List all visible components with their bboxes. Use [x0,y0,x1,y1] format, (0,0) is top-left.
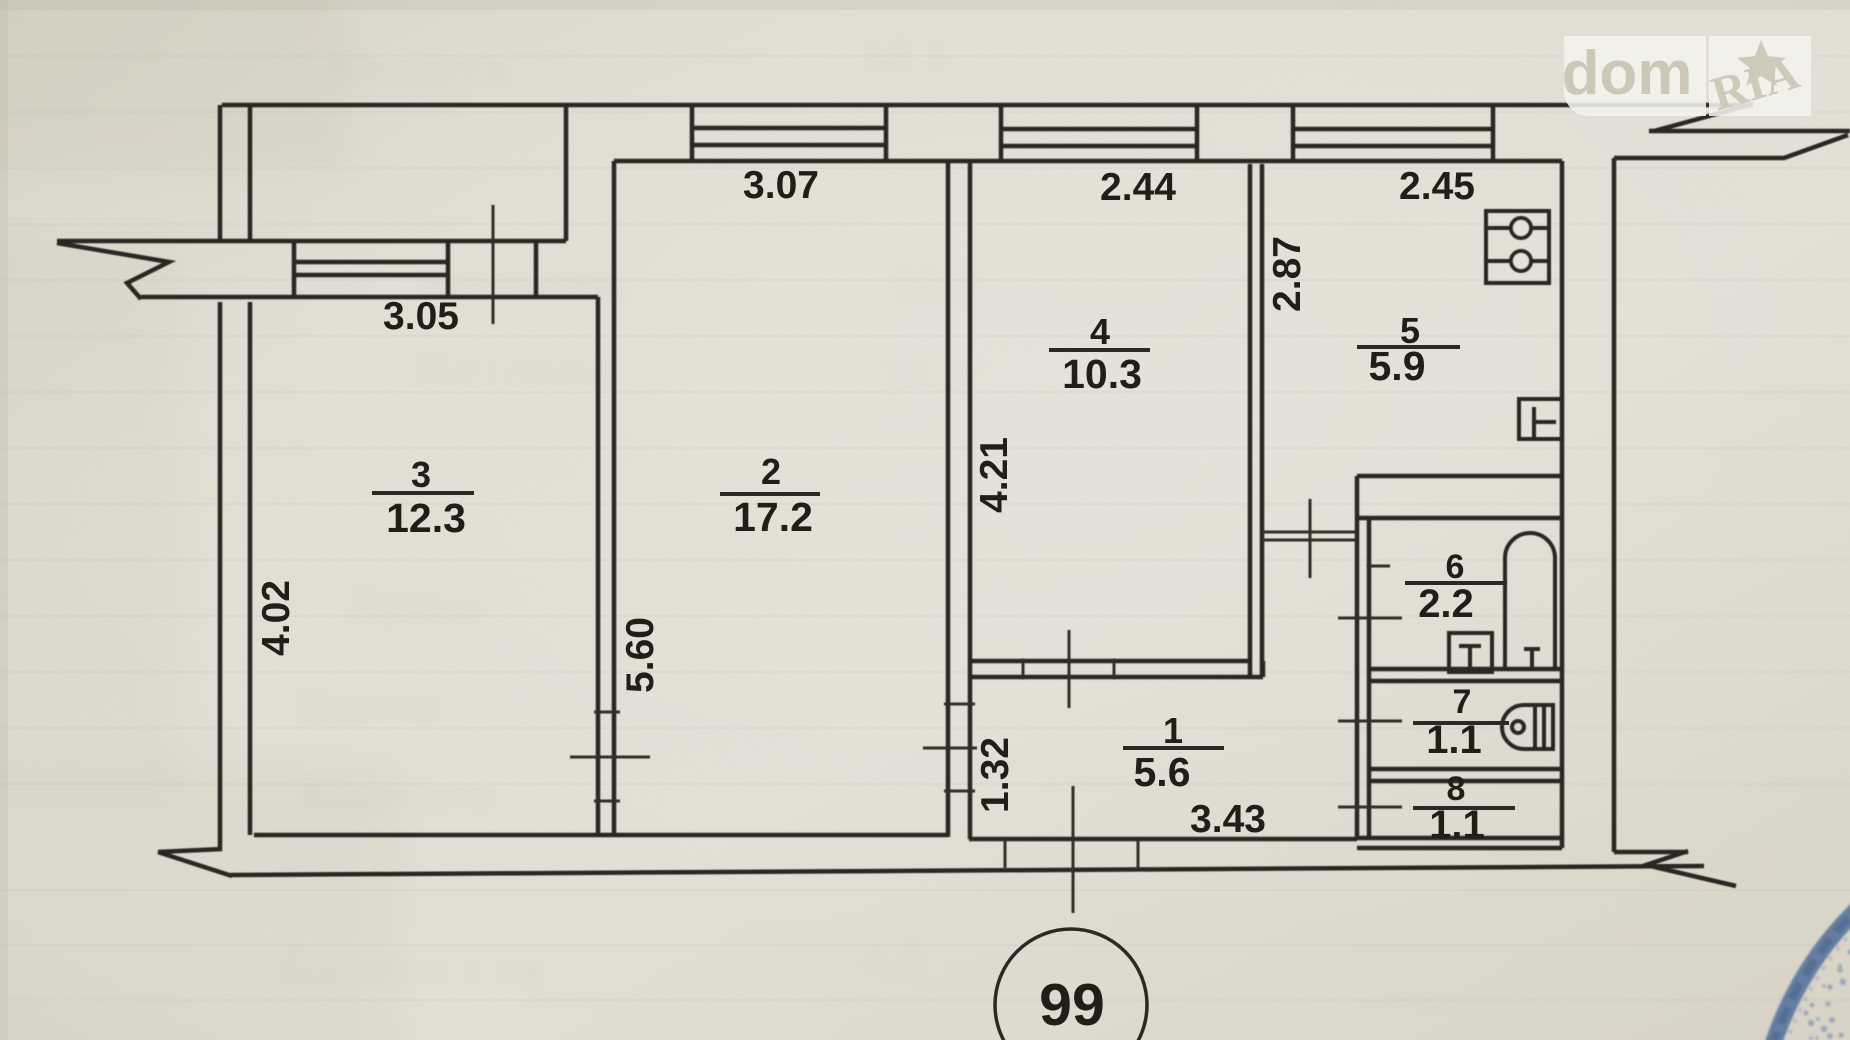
washbasin in room 6 [1449,633,1492,672]
dimension tick 1.32 [923,747,977,750]
window W4 glass line 1 [1001,127,1197,132]
svg-text:3.43: 3.43 [1190,798,1266,841]
room 2 label line [720,492,820,496]
svg-text:12.3: 12.3 [386,495,466,541]
window W4 right jamb [1195,105,1200,161]
kitchen threshold line 2 [1262,539,1357,542]
bottom-left beak top [158,849,222,852]
window W3 left jamb [292,241,297,297]
right outer band bottom [1614,135,1848,158]
svg-text:1.1: 1.1 [1426,718,1482,762]
wall rooms 7/8 bottom line [1369,779,1562,784]
door jamb tick room 4 right [1113,659,1116,679]
toilet bowl in room 7 [1502,705,1553,749]
wall: top outer line of building [222,103,1753,108]
break right-top horizontal [1649,129,1850,134]
svg-text:5.9: 5.9 [1369,343,1426,389]
kitchen faucet T bar [1532,407,1536,437]
room 4 bottom wall bottom line [970,675,1263,680]
door jamb tick rooms 3/2 upper [594,711,620,714]
dimension tick room 6 door [1338,617,1402,620]
jamb tick hall-room2 door upper [944,703,975,706]
svg-text:5.60: 5.60 [619,617,662,693]
partition rooms 4/5 right line [1260,164,1265,677]
room 1 label line [1123,746,1224,750]
svg-text:4,2: 4,2 [860,933,924,985]
window W2 glass line 2 [692,143,886,148]
kitchen sink niche [1519,399,1562,439]
window W5 glass line 2 [1293,144,1493,149]
svg-text:10.3: 10.3 [1062,351,1142,397]
wall: top inner ceiling line [614,159,1562,164]
dimension tick room 8 door [1338,806,1402,809]
svg-text:4: 4 [1090,311,1110,352]
break bottom-right zigzag [1646,851,1736,886]
window W5 left jamb [1291,105,1296,161]
svg-text:6: 6 [1446,548,1465,586]
stove in kitchen [1486,211,1549,283]
kitchen bottom wall left cap [1355,476,1360,518]
partition rooms 3/2 right line [612,161,617,836]
door jamb tick room 4 left [1022,659,1025,679]
break arrow left [57,243,169,299]
svg-text:10,0: 10,0 [880,348,970,400]
left edge shading [0,0,8,1040]
balcony left wall inner line [248,105,253,239]
corner shading top-left [0,0,350,170]
kitchen threshold line 1 [1262,531,1357,534]
logo dom RIA white box right [1709,36,1811,116]
outer band bottom line (room 3 wall) [141,295,598,300]
window W2 right jamb [884,105,889,161]
window W4 glass line 2 [1001,144,1197,149]
svg-text:Кімната: Кімната [330,43,507,95]
stamp blue arc bottom-right [1756,813,1850,1040]
dimension tick to apartment number [1072,786,1075,913]
band mid jamb [534,242,539,295]
bottom wall top line rooms 3 and 2 [254,833,948,838]
washbasin faucet T stem [1468,646,1472,670]
dimension cross kitchen door [1309,499,1312,578]
partition rooms 3/2 left line [596,297,601,836]
window W2 left jamb [690,105,695,161]
logo star [1737,40,1786,86]
room 7 label line leader to toilet [1413,721,1509,725]
window W3 glass line 2 [294,273,448,278]
bath block left wall outer line [1355,518,1360,837]
room 4 label line [1049,348,1150,352]
bath wall jamb tick room 6 top [1367,565,1390,568]
window W3 right jamb [446,241,451,297]
shading mid-left margin [0,240,180,800]
svg-text:99: 99 [1039,972,1105,1038]
room 4 bottom wall right cap [1261,661,1266,677]
entry door jamb tick right [1137,839,1140,868]
svg-text:12,0: 12,0 [890,258,980,310]
partition rooms 4/5 left line [1248,164,1253,677]
svg-text:dom: dom [1562,39,1693,108]
bottom-right outer corner line [1614,850,1688,855]
svg-text:3.07: 3.07 [743,164,819,207]
room 6 label line [1405,581,1507,585]
svg-text:2.45: 2.45 [1399,165,1475,208]
break right-top diagonal [1654,104,1753,131]
balcony left wall outer line [218,105,223,239]
toilet tank line 1 [1533,705,1537,749]
kitchen bottom wall bottom line [1357,516,1562,521]
room 5 label line [1357,345,1460,349]
svg-text:Житлова: Житлова [409,343,612,395]
svg-text:1.32: 1.32 [974,737,1017,813]
toilet tank line 2 [1542,705,1546,749]
bottom wall outer line [230,866,1704,875]
partition rooms 2/4 left line [946,161,951,837]
svg-text:5.6: 5.6 [1134,749,1191,795]
bathtub faucet T bar [1524,647,1540,651]
room 4 bottom wall top line [970,659,1251,664]
dimension tick room 7 door [1338,720,1402,723]
jamb tick hall-room2 door lower [944,790,975,793]
dimension cross room 4 door [1068,630,1071,708]
top edge shading [0,0,1850,10]
stove burner 2 [1511,251,1531,271]
wall rooms 7/8 top line [1369,767,1562,772]
svg-text:7: 7 [1453,683,1472,721]
dimension tick room 2 right [570,756,650,759]
svg-text:Кухня: Кухня [350,578,484,630]
washbasin faucet T bar [1459,644,1481,648]
svg-text:17.2: 17.2 [733,494,813,540]
right wall outer line [1612,158,1617,852]
svg-text:4.02: 4.02 [255,580,298,656]
bath block bottom wall top line [1357,836,1562,841]
room 3 left wall outer [218,302,223,851]
bathtub faucet T stem [1530,649,1534,668]
svg-text:12,1: 12,1 [860,28,950,80]
bath block left wall inner line [1367,518,1372,837]
stamp inner speckles [1804,950,1850,1040]
stove shelf line 1 [1486,226,1549,230]
bathtub in room 6 [1505,533,1555,669]
room 3 label line [372,491,474,495]
partition rooms 2/4 right line [968,161,973,839]
svg-text:1.1: 1.1 [1429,803,1485,847]
stove shelf line 2 [1486,259,1549,263]
svg-text:2.44: 2.44 [1100,166,1176,209]
svg-text:2.87: 2.87 [1266,236,1309,312]
corner shading bottom-left [0,760,400,1040]
balcony right wall [564,105,569,241]
kitchen faucet T stem [1534,420,1556,424]
balcony floor line / outer band top [57,239,566,244]
room 3 left wall inner [248,302,253,835]
door jamb tick rooms 3/2 lower [594,800,620,803]
svg-text:3: 3 [411,454,431,495]
room 8 label line [1413,806,1515,810]
toilet flush circle [1512,721,1524,733]
svg-text:1: 1 [1163,710,1183,751]
svg-text:2: 2 [761,451,781,492]
ghost bleed-through text smudges [280,28,980,995]
bottom-left beak diagonal [158,852,232,876]
window W2 glass line 1 [692,126,886,131]
right wall inner line [1560,161,1565,848]
window W3 glass line 1 [294,260,448,265]
bath block bottom wall bottom line [1357,846,1562,851]
bottom wall top line hall [969,837,1357,842]
stove burner 1 [1511,218,1531,238]
svg-text:4.21: 4.21 [973,437,1016,513]
svg-text:3.05: 3.05 [383,295,459,338]
entry door jamb tick left [1004,839,1007,868]
wall rooms 6/7 bottom line [1369,679,1562,684]
dimension tick 3.05 [492,205,495,324]
window W5 right jamb [1491,105,1496,161]
window W4 left jamb [999,105,1004,161]
kitchen bottom wall top line [1357,474,1562,479]
svg-text:2.2: 2.2 [1418,582,1474,626]
apartment number circle 99 [995,929,1147,1040]
wall rooms 6/7 top line [1369,667,1562,672]
window W5 glass line 1 [1293,127,1493,132]
logo dom RIA white box left [1564,36,1706,116]
svg-text:Ванна: Ванна [300,678,440,730]
